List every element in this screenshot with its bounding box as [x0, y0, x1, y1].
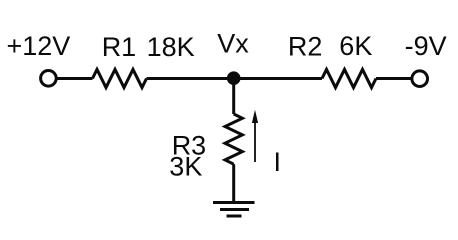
resistor R2 zigzag	[322, 69, 376, 87]
svg-text:-9V: -9V	[405, 31, 447, 61]
wire R1 to node	[147, 77, 234, 80]
svg-text:R2: R2	[288, 32, 323, 62]
ground bar 1	[213, 201, 255, 204]
resistor R1 zigzag	[93, 69, 147, 87]
svg-text:Vx: Vx	[217, 29, 249, 59]
node Vx junction dot	[227, 71, 241, 85]
svg-text:3K: 3K	[169, 152, 202, 182]
ground bar 3	[227, 215, 242, 218]
resistor R3 vertical zigzag	[225, 114, 242, 164]
svg-text:R1: R1	[102, 32, 137, 62]
svg-text:I: I	[274, 147, 282, 177]
wire left terminal to R1	[56, 77, 92, 80]
current arrow I head	[252, 110, 258, 123]
wire R3 to ground	[232, 164, 235, 202]
wire node to R2	[234, 77, 322, 80]
terminal +12V open circle	[41, 71, 57, 87]
terminal -9V open circle	[412, 71, 428, 87]
svg-text:18K: 18K	[147, 32, 195, 62]
svg-text:6K: 6K	[339, 31, 372, 61]
wire R2 to right terminal	[376, 77, 412, 80]
wire node down to R3	[232, 79, 235, 115]
ground bar 2	[220, 208, 249, 211]
svg-text:+12V: +12V	[7, 31, 71, 61]
current arrow I shaft	[254, 121, 256, 162]
